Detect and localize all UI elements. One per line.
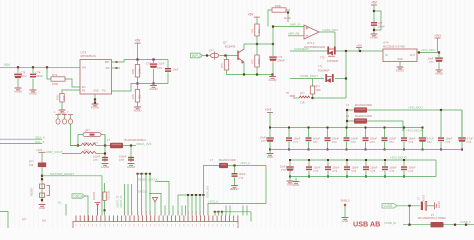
capacitor C18 100nF filter bbox=[130, 146, 132, 163]
junction C?7 bottom bbox=[269, 149, 271, 151]
junction C27 bottom bbox=[461, 149, 463, 151]
capacitor C10 100nF analog bbox=[234, 166, 236, 174]
wire +3V3 to bank1 rail bbox=[269, 112, 271, 127]
junction C18 bottom bbox=[288, 149, 290, 151]
wire bank2 ground stub bbox=[289, 177, 291, 182]
capacitor C18 100nF bank1 bbox=[288, 128, 290, 138]
wire JP1 right lead bbox=[101, 135, 105, 146]
junction gate pull node bbox=[311, 97, 313, 99]
resistor R10 gate pull bbox=[312, 79, 314, 87]
wire VUSB down to fuse row bbox=[409, 206, 411, 225]
junction reset node bbox=[41, 175, 43, 177]
junction filter out bbox=[130, 144, 132, 146]
capacitor C?3 10uF bank2 bbox=[289, 160, 291, 166]
junction reset node 2 bbox=[41, 178, 43, 180]
capacitor C32 100nF bank2 bbox=[384, 160, 386, 166]
junction C22 bottom bbox=[365, 149, 367, 151]
ground at input stage rail bbox=[269, 77, 276, 79]
wire 5V cap loop bbox=[374, 11, 381, 30]
junction 5V cap bottom bbox=[373, 29, 375, 31]
junction L4 left bbox=[346, 109, 348, 111]
MOSFET T1 FDN340P bbox=[325, 74, 327, 82]
wire label row1 to pin bbox=[155, 181, 169, 215]
wire link between rows bbox=[345, 51, 347, 98]
ground below C10 bbox=[231, 186, 238, 188]
red flag marker bbox=[153, 198, 158, 203]
wire boot pin bbox=[97, 205, 99, 216]
IC U2 pin stubs bbox=[76, 216, 238, 222]
wire master reset to MCU bbox=[42, 176, 102, 216]
junction sense riser bbox=[272, 25, 274, 27]
wire row junctions y174 bbox=[137, 173, 152, 175]
ground below C4 bbox=[30, 90, 37, 92]
resistor R17 pull-up bbox=[38, 163, 46, 168]
wire usb power row bbox=[403, 224, 474, 226]
wire R17 to reset node bbox=[41, 167, 43, 202]
capacitor C23 100nF bank1 bbox=[384, 128, 386, 138]
zigzag resistor R11 bbox=[299, 96, 310, 98]
junction bead L2 out bbox=[233, 164, 235, 166]
junction VUSB bbox=[408, 205, 410, 207]
wire +5V cap column bbox=[373, 5, 375, 22]
wire diode to base node bbox=[219, 55, 238, 57]
wire bead L4 left bbox=[347, 110, 354, 128]
wire aux column bbox=[65, 204, 67, 216]
wire SCL bbox=[0, 143, 42, 145]
wire R11 node to link bbox=[313, 97, 347, 99]
wire EN branch bbox=[47, 67, 51, 79]
wire row junctions y195 bbox=[178, 194, 204, 196]
capacitor C27 4.7uF bank1 bbox=[461, 110, 463, 137]
resistor R8 feedback top bbox=[137, 60, 139, 65]
ground below LDO bbox=[397, 67, 404, 69]
junction C26 bottom bbox=[440, 149, 442, 151]
junction filter node A bbox=[77, 144, 79, 146]
resistor R20 boot pull bbox=[104, 183, 106, 192]
wire bus to MCU pins left bbox=[124, 184, 126, 216]
junction C24 bottom bbox=[403, 149, 405, 151]
wire R9 to ground bbox=[137, 102, 139, 107]
wire short stubs to U2 pins bbox=[164, 206, 166, 216]
wire U3 pin to R6 bbox=[62, 90, 80, 94]
junction C?3 rails bbox=[289, 159, 291, 161]
resistor R1 collector load bbox=[255, 24, 259, 36]
wire R11 left supply bbox=[293, 97, 299, 99]
wire VDDA loop to MCU bbox=[208, 166, 266, 216]
ground below C2 bbox=[150, 86, 157, 88]
ground rotated right bbox=[435, 202, 437, 209]
resistor R6 bbox=[60, 94, 64, 103]
junction row B bbox=[104, 152, 106, 154]
capacitor C22 100nF bank1 bbox=[365, 128, 367, 138]
net label VUSB flag bbox=[382, 204, 397, 208]
wire bank2 bottom rail bbox=[290, 176, 436, 178]
wire input bbox=[203, 55, 211, 57]
junction C20 bottom bbox=[327, 149, 329, 151]
junction output rail bbox=[136, 58, 138, 60]
ground bank1 bbox=[267, 154, 274, 156]
junction below S1 bbox=[41, 199, 43, 201]
wire drops from y195 row bbox=[177, 195, 179, 216]
junction usb power row bbox=[408, 224, 410, 226]
junction C19 top bbox=[308, 127, 310, 129]
wire flag to MCU bbox=[85, 196, 88, 222]
wire U3 FB pin jog bbox=[112, 84, 132, 92]
wire R10 down bbox=[312, 94, 314, 98]
junction below U3 bbox=[94, 98, 96, 100]
junction LDO output bbox=[418, 51, 420, 53]
capacitor C6 22uF bbox=[17, 67, 19, 73]
wire sense riser to op-amp bbox=[273, 27, 304, 45]
wire VDD_MCU rail from L4 bbox=[367, 109, 462, 111]
junction C33 rails bbox=[403, 159, 405, 161]
junction C18 top bbox=[288, 127, 290, 129]
junction base node bbox=[224, 54, 226, 56]
wire drops from y212 row bbox=[214, 212, 216, 216]
IC U2 microcontroller box bbox=[73, 222, 238, 229]
wire bank1 ground stub bbox=[269, 150, 271, 154]
wire row junctions y212 bbox=[213, 211, 251, 213]
wire R3 left lead bbox=[268, 10, 272, 27]
ground below C6 bbox=[15, 88, 22, 90]
capacitor C2 22uF output bbox=[153, 60, 155, 64]
wire op-amp inverting input bbox=[288, 35, 304, 37]
junction bank1 rail left bbox=[269, 127, 271, 129]
capacitor C4 100nF bbox=[32, 67, 34, 73]
junction C25 top bbox=[422, 127, 424, 129]
junction input bbox=[206, 54, 208, 56]
wire JP1 left lead bbox=[78, 135, 83, 146]
wire supply to R17 bbox=[41, 152, 43, 162]
capacitor C1 100nF sense bbox=[272, 44, 274, 56]
resistor R5 base pulldown bbox=[226, 56, 228, 60]
ground below C16 bbox=[102, 164, 109, 166]
junction filter node B bbox=[104, 144, 106, 146]
junction C2 bottom bbox=[152, 82, 154, 84]
capacitor C20 100nF bank1 bbox=[327, 128, 329, 138]
capacitor C28 100nF bank2 bbox=[308, 160, 310, 166]
wire +5V to rail bbox=[137, 44, 139, 60]
bottom rail of input stage bbox=[227, 74, 273, 76]
junction C21 top bbox=[346, 127, 348, 129]
capacitor C11 10uF LDO out bbox=[438, 53, 440, 58]
wire bank1 corner right bbox=[461, 110, 463, 137]
junction collector rail bbox=[256, 43, 258, 45]
capacitor C33 100nF bank2 bbox=[403, 160, 405, 166]
wire TP3 down bbox=[71, 124, 79, 145]
wire bead L2 out bbox=[228, 165, 266, 167]
junction C20 top bbox=[327, 127, 329, 129]
wire riser to bead L2 bbox=[204, 166, 220, 196]
capacitor C4b 100nF output bbox=[167, 60, 169, 69]
wire R3 right lead bbox=[286, 9, 290, 11]
ground below R9 bbox=[134, 107, 141, 109]
capacitor C?7 10uF bank1 bbox=[269, 128, 271, 138]
junction C30 rails bbox=[346, 159, 348, 161]
wire U3 SW to output rail bbox=[112, 60, 125, 63]
capacitor C19 100nF bank1 bbox=[308, 128, 310, 138]
capacitor C30 100nF bank2 bbox=[346, 160, 348, 166]
wire VIN rail bbox=[0, 66, 80, 68]
op-amp U1.2 LMV358 bbox=[304, 25, 319, 39]
wire bank2 right link bbox=[435, 160, 437, 177]
junction C23 top bbox=[384, 127, 386, 129]
junction VDD rail bbox=[440, 109, 442, 111]
ground bank2 bbox=[287, 181, 294, 183]
net label GND flag bbox=[72, 194, 85, 198]
wire bank1 top rail bbox=[270, 127, 423, 129]
junction C25 bottom bbox=[422, 149, 424, 151]
wire LDO ground pin bbox=[399, 62, 401, 68]
junction after fuse bbox=[454, 224, 456, 226]
capacitor C16 100nF filter bbox=[102, 157, 108, 159]
wire R4 to U3 pin EN bbox=[65, 79, 80, 87]
wire R6 to ground bbox=[61, 102, 63, 110]
junction 5V row bbox=[345, 50, 347, 52]
ground below R6 bbox=[59, 110, 66, 112]
wire label row2 to pin bbox=[149, 193, 161, 215]
wire +5V to R1 bbox=[256, 17, 258, 24]
junction C22 top bbox=[365, 127, 367, 129]
wire row link vertical bbox=[104, 135, 106, 162]
supply bar above R17 bbox=[39, 151, 46, 153]
ground below S1 bbox=[39, 205, 46, 207]
test point TP1 bbox=[57, 115, 59, 119]
wire R2 to rail bbox=[256, 67, 258, 75]
wire bead L5 out bbox=[123, 145, 136, 147]
net label INPUT flag bbox=[191, 53, 203, 58]
capacitor C31 100nF bank2 bbox=[365, 160, 367, 166]
wire VDDA from L3 bbox=[367, 121, 403, 131]
junction R3 right bbox=[287, 11, 289, 13]
ground test point GND bbox=[295, 178, 297, 182]
ground below U3 PGND bbox=[92, 104, 99, 106]
wire bottom left corner bbox=[0, 212, 8, 229]
junction usb row bbox=[345, 77, 347, 79]
wire bank1 bottom rail bbox=[270, 149, 462, 151]
junction C19 bottom bbox=[308, 149, 310, 151]
IC U2 pin numbers bbox=[76, 224, 238, 226]
junction C29 rails bbox=[327, 159, 329, 161]
wire collector up bbox=[243, 44, 245, 49]
junction on VIN rail bbox=[17, 66, 19, 68]
resistor R2 divider bbox=[256, 44, 258, 55]
wire usb switch row bbox=[290, 78, 324, 80]
wire FB bottom link bbox=[131, 83, 168, 85]
wire R8 to FB node bbox=[137, 77, 139, 84]
wire buck output rail bbox=[124, 59, 168, 61]
junction bottom rail bbox=[243, 73, 245, 75]
wire R20 to MCU bbox=[104, 200, 106, 215]
wire drops from y174 row bbox=[137, 174, 139, 216]
wire 5V switch row bbox=[290, 50, 324, 52]
capacitor C29 100nF bank2 bbox=[327, 160, 329, 166]
wire LDO output bbox=[417, 52, 439, 54]
wire bank2 top rail bbox=[290, 159, 436, 161]
junction C32 rails bbox=[384, 159, 386, 161]
ground below C18 bbox=[128, 164, 135, 166]
wire collector rail bbox=[244, 43, 273, 45]
junction 5V cap bbox=[373, 10, 375, 12]
capacitor C12 100nF 5V bbox=[371, 22, 377, 24]
wire bead L3 left bbox=[347, 120, 354, 122]
wire right loop down bbox=[250, 212, 252, 222]
ground below C11 bbox=[436, 70, 443, 72]
capacitor C26 100nF bank1 bbox=[440, 110, 442, 137]
MOSFET T2 FDN340P bbox=[324, 50, 339, 52]
wire gate drive down bbox=[334, 32, 336, 48]
wire emitter down bbox=[243, 62, 245, 75]
wire SDA bbox=[0, 138, 42, 140]
junction FB node bbox=[136, 82, 138, 84]
ground below C12 bbox=[371, 34, 378, 36]
junction C28 rails bbox=[308, 159, 310, 161]
wire R1 to node bbox=[256, 36, 258, 44]
capacitor C21 100nF bank1 bbox=[346, 128, 348, 138]
junction C21 bottom bbox=[346, 149, 348, 151]
capacitor C24 100nF bank1 bbox=[403, 128, 405, 138]
junction C24 top bbox=[403, 127, 405, 129]
switch S1 RESET bbox=[40, 184, 45, 188]
wire U3 GND stub bbox=[94, 94, 96, 99]
capacitor C25 4.7uF bank1 bbox=[422, 128, 424, 138]
resistor R4 100k bbox=[51, 77, 65, 81]
junction C31 rails bbox=[365, 159, 367, 161]
ferrite bead L5 BLM15 bbox=[110, 143, 123, 149]
resistor R9 feedback bottom bbox=[137, 84, 139, 90]
test point TP2 bbox=[64, 115, 66, 119]
wire VUSB bbox=[397, 205, 420, 207]
wire +3V3 to output bbox=[437, 38, 439, 53]
wire cap to ground right bbox=[427, 205, 435, 207]
wire R3 right down bbox=[287, 13, 289, 23]
test point TP3 bbox=[70, 115, 72, 119]
junction L3 left bbox=[346, 120, 348, 122]
junction C23 bottom bbox=[384, 149, 386, 151]
junction R20 bbox=[104, 209, 106, 211]
U3 pin dots bbox=[116, 61, 118, 63]
wire op-amp output bbox=[319, 31, 335, 33]
